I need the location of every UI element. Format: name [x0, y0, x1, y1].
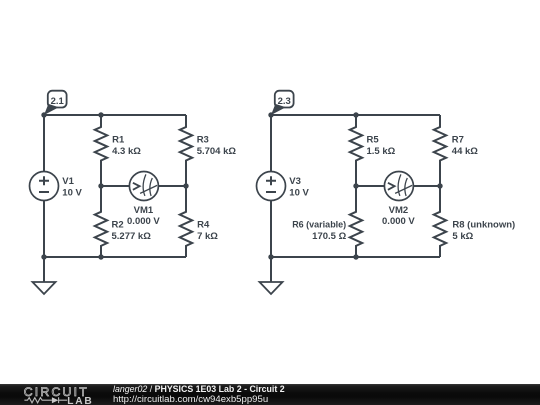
- svg-text:2.3: 2.3: [278, 96, 291, 107]
- svg-text:170.5 Ω: 170.5 Ω: [312, 231, 346, 242]
- svg-text:4.3 kΩ: 4.3 kΩ: [112, 146, 141, 157]
- svg-text:10 V: 10 V: [62, 187, 82, 198]
- svg-text:R1: R1: [112, 135, 125, 146]
- svg-text:R8 (unknown): R8 (unknown): [452, 220, 515, 231]
- svg-text:5 kΩ: 5 kΩ: [452, 231, 473, 242]
- svg-text:V1: V1: [62, 176, 74, 187]
- svg-text:VM2: VM2: [389, 205, 409, 216]
- svg-text:0.000 V: 0.000 V: [382, 216, 415, 227]
- svg-text:VM1: VM1: [134, 205, 154, 216]
- svg-text:10 V: 10 V: [289, 187, 309, 198]
- svg-text:R5: R5: [367, 135, 380, 146]
- svg-text:44 kΩ: 44 kΩ: [452, 146, 478, 157]
- svg-text:1.5 kΩ: 1.5 kΩ: [367, 146, 396, 157]
- svg-text:5.277 kΩ: 5.277 kΩ: [112, 231, 152, 242]
- svg-text:LAB: LAB: [67, 396, 93, 405]
- svg-text:R4: R4: [197, 220, 210, 231]
- svg-text:V3: V3: [289, 176, 301, 187]
- svg-text:R6 (variable): R6 (variable): [292, 220, 346, 231]
- svg-text:2.1: 2.1: [51, 96, 65, 107]
- svg-text:5.704 kΩ: 5.704 kΩ: [197, 146, 237, 157]
- svg-text:0.000 V: 0.000 V: [127, 216, 160, 227]
- svg-text:R7: R7: [452, 135, 464, 146]
- svg-text:7 kΩ: 7 kΩ: [197, 231, 218, 242]
- svg-text:R2: R2: [112, 220, 124, 231]
- svg-text:R3: R3: [197, 135, 209, 146]
